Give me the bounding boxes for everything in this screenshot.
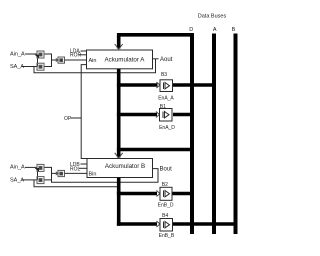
svg-text:Aout: Aout — [160, 57, 173, 63]
wire gate3B to Bin — [65, 172, 88, 174]
node blob top — [35, 55, 39, 59]
thick branch to B1 — [117, 113, 157, 117]
gate G2 top — [37, 63, 44, 70]
gate G1 bottom — [37, 164, 44, 171]
wire Aout stub — [153, 58, 159, 60]
svg-text:SA_A: SA_A — [10, 64, 24, 70]
arrow into AccB — [115, 153, 123, 158]
svg-text:Ain_A: Ain_A — [10, 51, 25, 57]
svg-text:EnB_D: EnB_D — [158, 202, 174, 208]
wire Bout stub — [153, 168, 159, 170]
wire gate merge — [44, 54, 52, 67]
arrow into AccA — [115, 44, 123, 49]
wire Bout feedback to merge B — [52, 169, 159, 183]
thick branch to D bus mid — [117, 148, 194, 152]
thick D bus to AccA top — [119, 35, 194, 49]
thick branch to B3 — [117, 83, 158, 87]
bus A — [212, 34, 216, 235]
svg-text:SA_A: SA_A — [10, 178, 24, 184]
gate G3 top — [56, 57, 64, 63]
accumulator B box — [87, 159, 153, 178]
svg-text:Data Buses: Data Buses — [198, 13, 227, 19]
svg-text:D: D — [189, 27, 193, 33]
arrow into B3 — [156, 82, 160, 88]
svg-text:B: B — [232, 27, 236, 33]
wire merge to gate3 — [52, 59, 59, 61]
buffer B4 — [160, 219, 173, 232]
svg-text:A: A — [213, 27, 217, 33]
svg-text:B3: B3 — [161, 72, 167, 78]
svg-text:OP: OP — [64, 116, 72, 122]
wire SA_A to gate G2B — [22, 179, 37, 181]
node blob bottom — [35, 168, 39, 172]
thick AccA bottom to AccB top — [117, 69, 121, 158]
buffer B3 — [160, 80, 173, 92]
svg-text:Bout: Bout — [160, 167, 173, 173]
wire SA_A B feedback — [34, 180, 118, 187]
svg-text:Ain: Ain — [89, 58, 97, 64]
accumulator A box — [87, 50, 153, 69]
wire LDB stub — [81, 163, 88, 165]
arrow into B4 — [156, 221, 160, 227]
thick B3 out to A bus — [173, 83, 216, 87]
arrow into B1 — [156, 112, 160, 118]
svg-text:Ackumulator B: Ackumulator B — [105, 163, 145, 170]
bus D — [190, 34, 194, 235]
svg-text:B4: B4 — [162, 213, 168, 219]
wire Aout feedback to SA_A junction — [34, 59, 156, 73]
svg-text:ROL: ROL — [70, 166, 81, 172]
thick B4 out to B bus — [173, 222, 238, 226]
svg-text:EnB_B: EnB_B — [159, 233, 175, 239]
wire LDA stub — [81, 50, 87, 52]
svg-text:ROR: ROR — [70, 53, 82, 59]
wire gate merge B — [44, 167, 52, 180]
wire Ain_A to gate G1 — [25, 53, 37, 55]
thick bottom to B4 — [117, 222, 157, 226]
thick branch to B2 — [117, 192, 157, 196]
wire OP stub — [71, 117, 82, 119]
svg-text:EnA_A: EnA_A — [158, 95, 174, 101]
svg-text:Ain_A: Ain_A — [10, 165, 25, 171]
buffer B2 — [160, 187, 172, 200]
wire mergeB to gate3B — [52, 172, 59, 174]
wire gate1 corner to SA_A line — [37, 58, 39, 67]
arrow into B2 — [156, 191, 160, 197]
wire ROR stub — [79, 54, 87, 56]
thick B2 out to D bus — [172, 192, 194, 196]
wire ROL stub — [79, 167, 87, 169]
gate G1 top — [37, 51, 44, 58]
thick AccB bottom down — [117, 178, 121, 226]
wire SA_A to gate G2 — [22, 66, 37, 68]
buffer B1 — [160, 109, 173, 122]
svg-text:B1: B1 — [160, 104, 166, 110]
wire shift chain AccA to AccB — [81, 65, 87, 159]
gate G3 bottom — [56, 170, 64, 176]
svg-text:EnA_D: EnA_D — [159, 125, 175, 131]
svg-text:Bin: Bin — [89, 172, 97, 178]
wire Ain_A to gate G1B — [25, 166, 37, 168]
bus B — [234, 34, 238, 235]
wire gate3 to Ain — [65, 59, 87, 61]
svg-text:B2: B2 — [162, 182, 168, 188]
svg-text:Ackumulator A: Ackumulator A — [105, 57, 146, 64]
gate G2 bottom — [37, 177, 44, 184]
wire gate1B corner to SA_A line — [37, 171, 39, 180]
thick B1 out to D bus — [173, 113, 194, 117]
